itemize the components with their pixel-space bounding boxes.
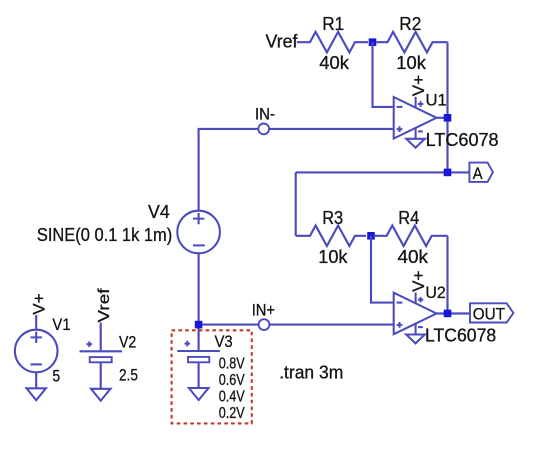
ground at U1 V- pin	[406, 139, 425, 148]
port IN-	[258, 123, 269, 134]
svg-text:40k: 40k	[319, 53, 350, 73]
junction node A	[444, 169, 452, 177]
junction IN+	[195, 321, 203, 329]
wire V4 bottom to IN+ junction and V3	[198, 253, 200, 351]
svg-text:R2: R2	[399, 14, 421, 34]
wire V1 to ground	[35, 372, 37, 388]
svg-text:10k: 10k	[396, 53, 427, 73]
svg-text:40k: 40k	[398, 247, 430, 267]
svg-text:0.6V: 0.6V	[219, 372, 246, 389]
svg-text:R3: R3	[322, 208, 343, 228]
wire IN- to U1 + input	[269, 128, 394, 130]
svg-text:A: A	[473, 164, 483, 183]
svg-text:V4: V4	[148, 202, 170, 222]
wire U2 output to OUT	[437, 312, 471, 314]
wire V2 to ground	[100, 362, 102, 389]
svg-text:V1: V1	[52, 315, 70, 334]
svg-text:Vref: Vref	[266, 32, 299, 52]
net label V+ at U1	[409, 75, 428, 96]
junction R3/R4	[367, 232, 375, 240]
ground below V1	[27, 388, 46, 400]
wire U1 output	[437, 117, 448, 119]
wire R1/R2 junction to U1 inverting input	[373, 42, 394, 107]
wire IN+ to U2 + input	[269, 324, 393, 326]
svg-text:U2: U2	[425, 283, 445, 302]
wire junction to IN+ port	[202, 324, 258, 326]
svg-text:5: 5	[52, 367, 60, 386]
svg-text:R4: R4	[398, 208, 419, 228]
flag OUT	[470, 303, 513, 322]
wire V3 to ground	[198, 362, 200, 388]
net label V+ at V1	[29, 293, 48, 314]
resistor R2	[377, 32, 448, 53]
svg-text:LTC6078: LTC6078	[425, 326, 496, 346]
svg-text:Vref: Vref	[96, 288, 113, 323]
svg-text:0.2V: 0.2V	[219, 405, 246, 422]
svg-text:V+: V+	[29, 293, 48, 314]
junction U2 output	[444, 310, 452, 318]
wire Vref label to V2	[100, 323, 102, 352]
wire feedback R2 down to node A	[446, 42, 448, 172]
wire node A down to R3	[295, 172, 297, 235]
ground below V2	[91, 389, 111, 401]
ground at U2 V- pin	[406, 335, 425, 344]
wire V+ label to V1	[35, 315, 37, 330]
svg-text:IN+: IN+	[252, 302, 275, 320]
ground below V3	[189, 388, 209, 400]
net label V+ at U2	[409, 271, 428, 292]
voltage source V2 (battery)	[80, 341, 123, 362]
svg-text:LTC6078: LTC6078	[426, 130, 499, 150]
resistor R3	[296, 226, 366, 247]
voltage source V4	[177, 211, 220, 254]
op-amp U1	[394, 97, 437, 139]
port IN+	[259, 319, 270, 330]
wire V4 top to IN-	[199, 129, 259, 211]
svg-text:2.5: 2.5	[119, 365, 138, 384]
svg-text:OUT: OUT	[473, 305, 505, 324]
svg-text:V2: V2	[119, 332, 136, 351]
svg-text:0.4V: 0.4V	[219, 388, 246, 405]
net label Vref at V2	[96, 288, 113, 323]
voltage source V3 (battery)	[177, 341, 220, 363]
svg-text:U1: U1	[426, 90, 447, 109]
junction R1/R2	[369, 38, 377, 46]
svg-text:IN-: IN-	[255, 106, 275, 124]
voltage source V1	[15, 330, 58, 373]
op-amp U2	[394, 293, 437, 335]
junction U1 output	[444, 114, 452, 122]
wire R3/R4 junction to U2 inverting input	[371, 236, 394, 303]
svg-text:V3: V3	[215, 332, 233, 351]
resistor R1	[297, 32, 368, 53]
resistor R4	[375, 226, 448, 247]
svg-text:R1: R1	[322, 14, 344, 34]
svg-text:10k: 10k	[318, 247, 348, 267]
svg-text:.tran 3m: .tran 3m	[279, 362, 343, 382]
flag node A	[469, 163, 493, 182]
svg-text:SINE(0 0.1 1k 1m): SINE(0 0.1 1k 1m)	[37, 224, 172, 245]
wire R4 down to U2 output	[446, 236, 448, 314]
highlight box around V3	[172, 330, 252, 423]
wire node A horizontal	[296, 171, 470, 173]
svg-text:0.8V: 0.8V	[219, 355, 246, 372]
